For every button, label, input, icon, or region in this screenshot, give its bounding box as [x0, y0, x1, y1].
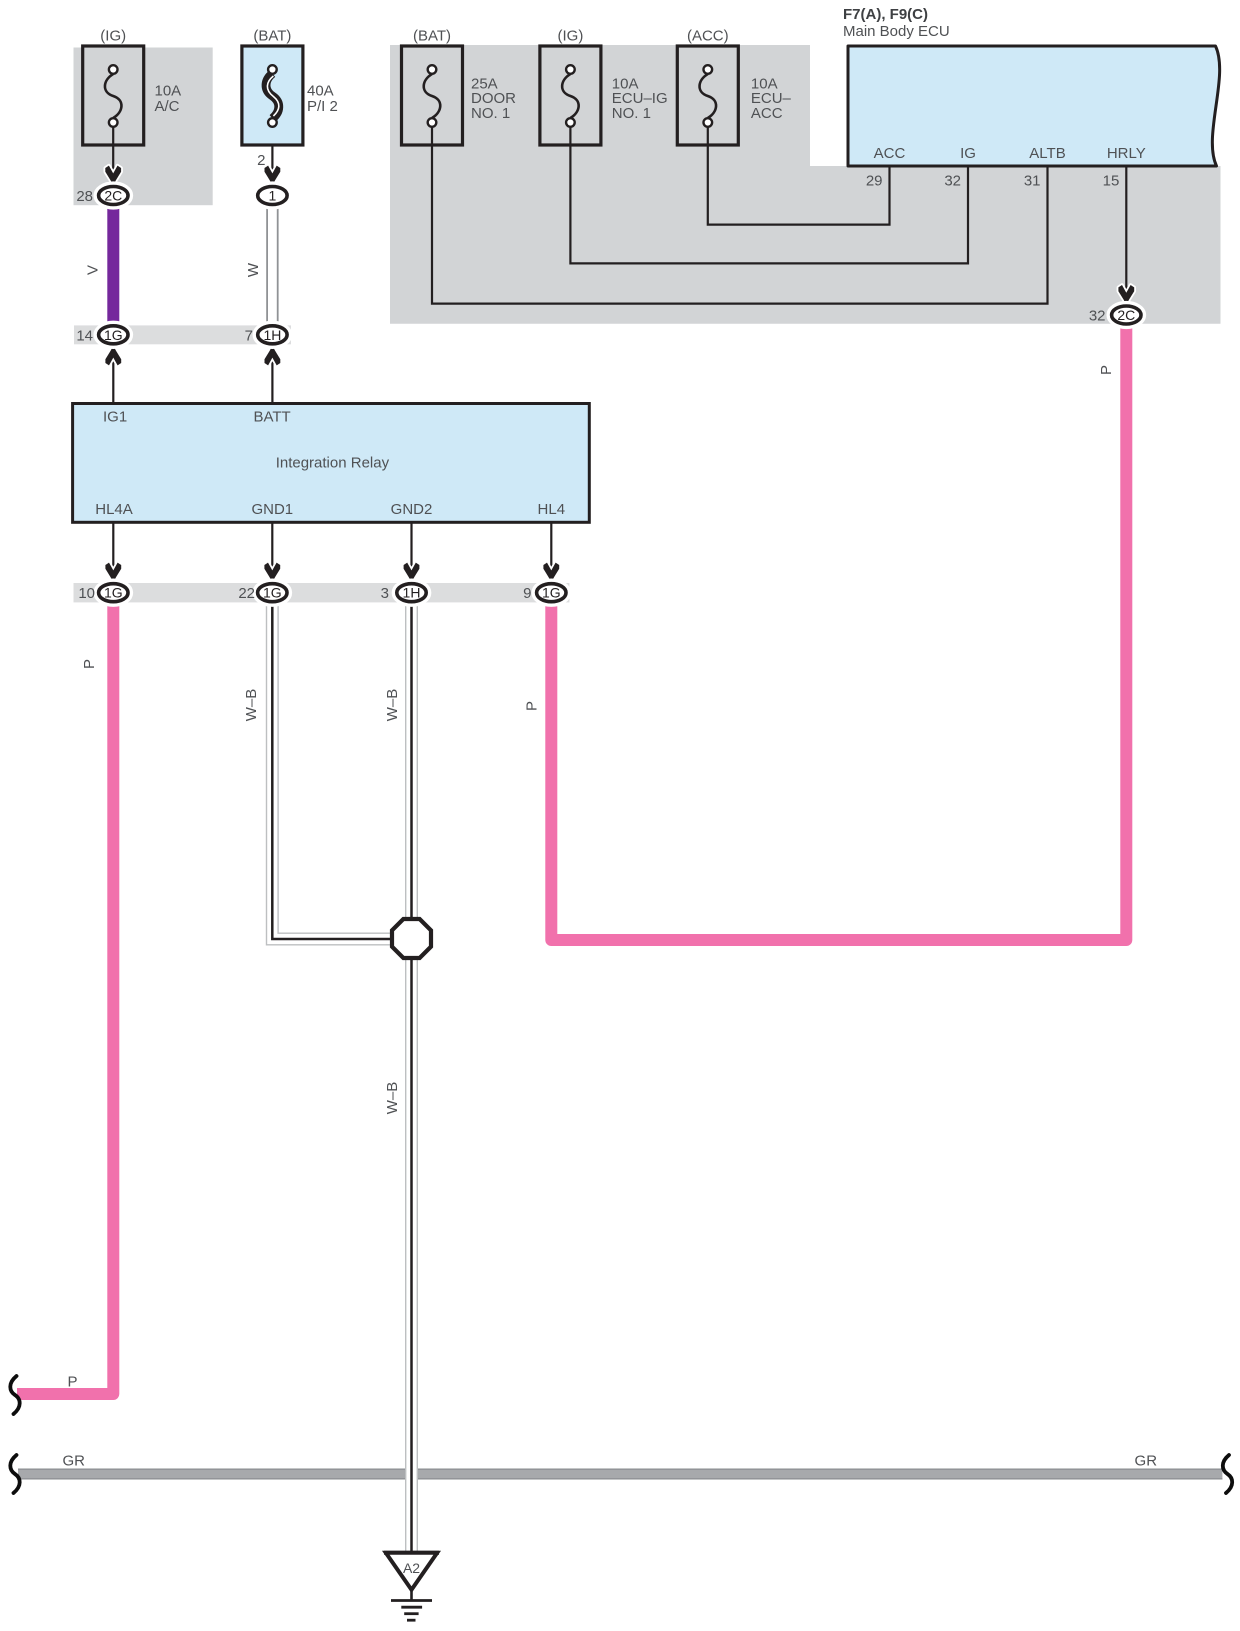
wire from fusible link P/I 2 to connector 1 [271, 127, 273, 172]
svg-text:2C: 2C [104, 188, 122, 204]
fuse block shading (left, 10A A/C) [74, 48, 213, 206]
svg-text:29: 29 [866, 173, 883, 190]
Main Body ECU F7(A), F9(C) [848, 46, 1220, 166]
wire GR (gray) ground bus [18, 1469, 1222, 1480]
svg-text:HL4A: HL4A [95, 501, 133, 518]
wire HL4A to connector 1G pin 10 [112, 522, 114, 578]
svg-text:(IG): (IG) [557, 28, 583, 45]
arrow into 1H pin 7 [265, 346, 281, 366]
svg-text:F7(A), F9(C): F7(A), F9(C) [843, 6, 928, 23]
svg-text:14: 14 [76, 327, 93, 344]
fusible link (BAT) 40A P/I 2 [242, 46, 303, 145]
wire GND1 to connector 1G pin 22 [271, 522, 273, 578]
fuse (IG) 10A ECU-IG NO. 1 [540, 46, 601, 145]
svg-text:IG1: IG1 [103, 409, 127, 426]
svg-text:P: P [67, 1374, 77, 1391]
connector 2C pin 32 [1110, 304, 1143, 326]
wire BATT to connector 1H pin 7 [271, 347, 273, 404]
arrow into 1H pin 3 [404, 563, 420, 583]
svg-text:28: 28 [76, 188, 93, 205]
svg-text:ACC: ACC [751, 105, 783, 122]
svg-text:ACC: ACC [874, 145, 906, 162]
svg-text:GND1: GND1 [251, 501, 293, 518]
svg-text:15: 15 [1103, 173, 1120, 190]
svg-text:1G: 1G [542, 585, 561, 601]
svg-text:32: 32 [944, 173, 961, 190]
svg-text:40A: 40A [307, 83, 334, 100]
connector 1G pin 22 [256, 582, 289, 604]
connector band 1G/1H (upper) [74, 325, 291, 344]
svg-text:GND2: GND2 [391, 501, 433, 518]
connector 1H pin 7 [256, 324, 289, 346]
arrow into 1G pin 14 [105, 346, 121, 366]
svg-text:9: 9 [523, 585, 531, 602]
svg-text:P/I 2: P/I 2 [307, 98, 338, 115]
svg-text:Main Body ECU: Main Body ECU [843, 23, 950, 40]
wire HL4 to connector 1G pin 9 [550, 522, 552, 578]
svg-text:1: 1 [269, 188, 277, 204]
svg-text:GR: GR [1135, 1453, 1158, 1470]
svg-text:2: 2 [257, 152, 265, 169]
arrow into 1G pin 22 [264, 563, 280, 583]
svg-text:HL4: HL4 [538, 501, 566, 518]
connector 1 (pin 2) [256, 185, 289, 207]
connector 1G pin 10 [97, 582, 130, 604]
arrow into 2C pin 32 [1118, 285, 1134, 305]
svg-text:W–B: W–B [384, 1082, 401, 1115]
wire V (violet) from 2C pin 28 to 1G pin 14 [107, 203, 119, 327]
wire W-B from GND2 connector 1H pin 3 to ground junction [405, 601, 418, 920]
svg-text:(IG): (IG) [100, 28, 126, 45]
break symbol GR wire left [10, 1455, 19, 1493]
wire P (pink) from 1G pin 10 down and left to connector break [17, 600, 113, 1394]
ground A2 [384, 1553, 439, 1590]
fuse (IG) 10A A/C [83, 46, 144, 145]
svg-text:2C: 2C [1117, 307, 1135, 323]
svg-text:W–B: W–B [384, 689, 401, 722]
svg-text:7: 7 [245, 327, 253, 344]
junction / fuse block shading (right) [390, 45, 1221, 324]
svg-text:(BAT): (BAT) [413, 28, 451, 45]
wire from fuse ECU-IG NO.1 to ECU pin IG [570, 127, 968, 264]
svg-text:10A: 10A [155, 83, 182, 100]
wire from fuse ECU-ACC to ECU pin ACC [708, 127, 890, 225]
svg-text:HRLY: HRLY [1107, 145, 1146, 162]
break symbol GR wire right [1223, 1455, 1232, 1493]
fuse (BAT) 25A DOOR NO. 1 [402, 46, 463, 145]
svg-text:V: V [85, 265, 102, 275]
wire from fuse DOOR NO.1 to ECU pin ALTB [432, 127, 1048, 304]
connector 1H pin 3 [395, 582, 428, 604]
Integration Relay [73, 404, 590, 523]
svg-text:W: W [245, 262, 262, 277]
arrow into 1G pin 9 [543, 563, 559, 583]
svg-text:1G: 1G [104, 585, 123, 601]
svg-text:P: P [524, 701, 541, 711]
svg-text:BATT: BATT [254, 409, 291, 426]
svg-text:P: P [1098, 365, 1115, 375]
svg-text:NO. 1: NO. 1 [471, 105, 510, 122]
svg-text:NO. 1: NO. 1 [612, 105, 651, 122]
svg-text:P: P [81, 659, 98, 669]
svg-text:(BAT): (BAT) [253, 28, 291, 45]
arrow into 2C pin 28 [105, 166, 121, 186]
connector 1G pin 9 [535, 582, 568, 604]
svg-text:31: 31 [1024, 173, 1041, 190]
svg-text:3: 3 [381, 585, 389, 602]
svg-text:32: 32 [1089, 308, 1106, 325]
fuse (ACC) 10A ECU-ACC [677, 46, 738, 145]
wire GND2 to connector 1H pin 3 [410, 522, 412, 578]
connector band 1G/1G/1H/1G (lower) [74, 583, 570, 602]
connector 1G pin 14 [97, 324, 130, 346]
svg-text:W–B: W–B [243, 689, 260, 722]
arrow into connector 1 [265, 166, 281, 186]
svg-text:1H: 1H [403, 585, 421, 601]
svg-text:1G: 1G [263, 585, 282, 601]
svg-text:1G: 1G [104, 327, 123, 343]
wire from fuse A/C to connector 2C [112, 127, 114, 172]
svg-text:22: 22 [238, 585, 255, 602]
svg-text:GR: GR [62, 1453, 85, 1470]
wire P (pink) from 1G pin 9 to Main Body ECU 2C pin 32 [551, 323, 1126, 940]
svg-text:(ACC): (ACC) [687, 28, 729, 45]
wire IG1 to connector 1G pin 14 [112, 347, 114, 404]
svg-text:1H: 1H [263, 327, 281, 343]
svg-text:ALTB: ALTB [1029, 145, 1065, 162]
svg-text:A2: A2 [403, 1560, 420, 1576]
wire W-B from GND1 connector 1G pin 22 to ground junction [272, 601, 390, 939]
svg-text:IG: IG [960, 145, 976, 162]
svg-text:10: 10 [78, 585, 95, 602]
wire from ECU pin HRLY to connector 2C pin 32 [1125, 166, 1127, 298]
break symbol pink wire left [10, 1376, 19, 1414]
connector 2C pin 28 [97, 185, 130, 207]
ground junction node [392, 919, 431, 958]
svg-text:A/C: A/C [155, 98, 180, 115]
wire W (white) from connector 1 to 1H pin 7 [266, 204, 278, 325]
arrow into 1G pin 10 [105, 563, 121, 583]
svg-text:Integration Relay: Integration Relay [276, 455, 390, 472]
wire W-B from ground junction to ground A2 [405, 957, 418, 1552]
